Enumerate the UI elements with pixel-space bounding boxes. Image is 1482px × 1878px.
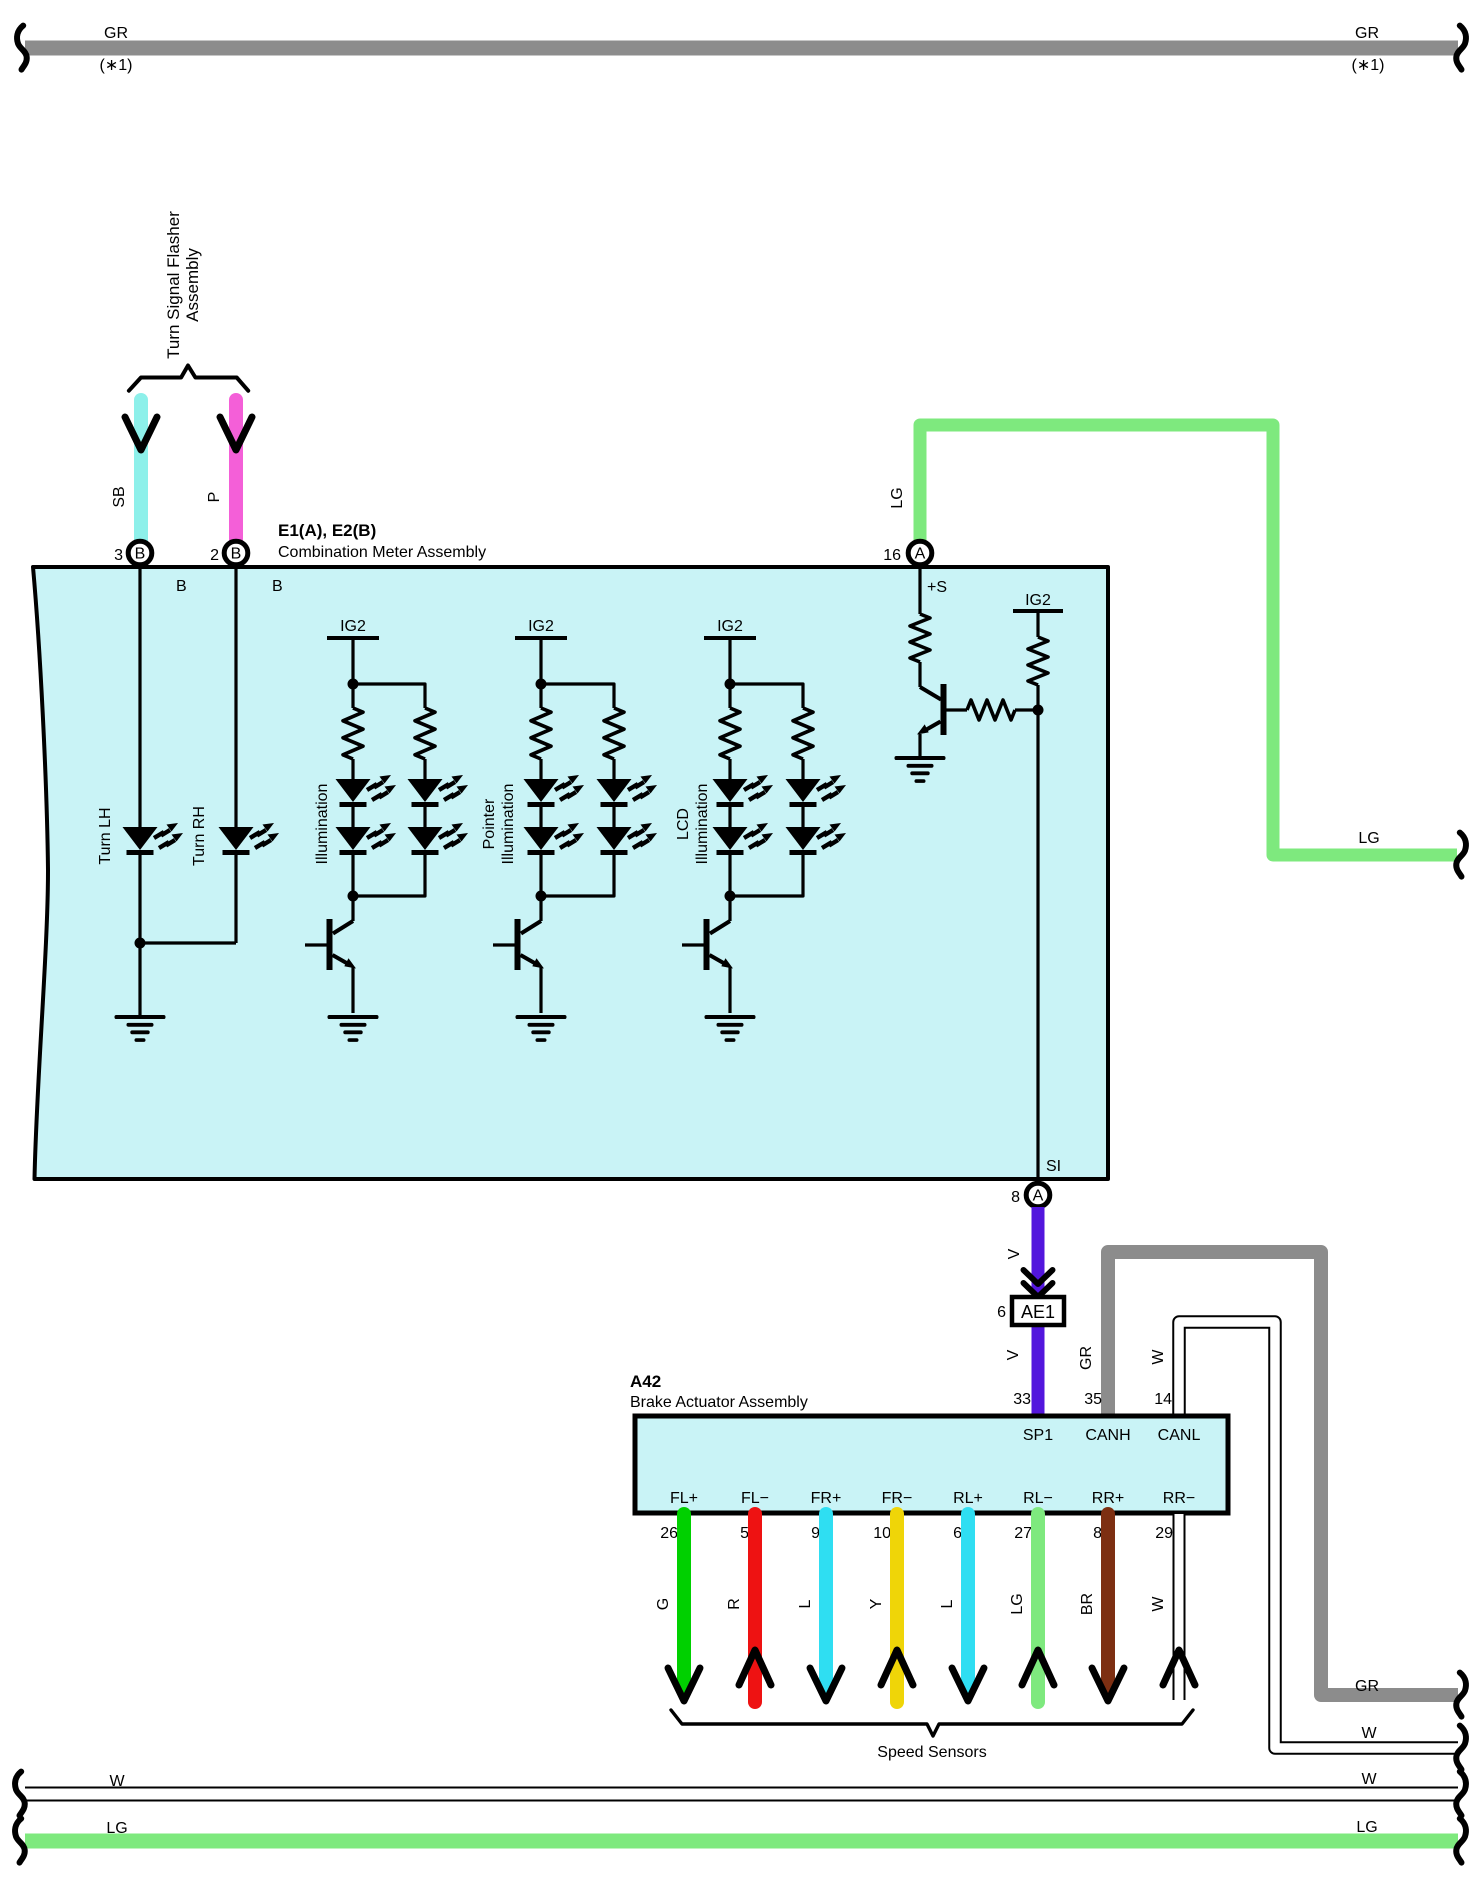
- continuation squiggle LG rail left: [15, 1819, 25, 1863]
- svg-text:27: 27: [1014, 1525, 1032, 1542]
- svg-text:W: W: [1150, 1596, 1167, 1612]
- wire L (sensor): [819, 1514, 833, 1692]
- continuation squiggle GR top-right: [1456, 26, 1466, 70]
- node branch bottom (pointer illumination): [536, 891, 547, 902]
- continuation squiggle W rail left: [15, 1772, 25, 1816]
- arrow up (LG sensor): [1022, 1650, 1054, 1685]
- wire resistor to LED1 right (illumination): [423, 759, 426, 780]
- wire LED2 to bottom node left (LCD illumination): [728, 852, 731, 896]
- svg-text:LG: LG: [1358, 830, 1379, 847]
- wire LED2 to bottom join right (pointer illumination): [541, 852, 614, 896]
- svg-text:3: 3: [114, 547, 123, 564]
- wire node to transistor (pointer illumination): [539, 896, 542, 921]
- arrow double chevron on V wire: [1024, 1270, 1053, 1284]
- svg-text:RL−: RL−: [1023, 1490, 1053, 1507]
- wire GR CANH: [1108, 1252, 1458, 1695]
- svg-text:RL+: RL+: [953, 1490, 983, 1507]
- resistor left (illumination): [343, 708, 363, 759]
- LED 1 left (illumination): [336, 775, 397, 807]
- connector A pin 8: [1026, 1183, 1050, 1207]
- wire SB (turn LH feed): [134, 400, 148, 546]
- svg-text:SB: SB: [111, 486, 128, 507]
- connector A pin 16: [908, 541, 932, 565]
- connector B pin 3: [128, 541, 152, 565]
- svg-text:LCD: LCD: [675, 808, 692, 840]
- wire P (turn RH feed): [229, 400, 243, 546]
- svg-text:A: A: [1033, 1188, 1044, 1205]
- node junction turn wires: [135, 938, 146, 949]
- svg-text:IG2: IG2: [528, 618, 554, 635]
- wire LED2 to bottom node left (pointer illumination): [539, 852, 542, 896]
- junction connector AE1: [1012, 1297, 1064, 1325]
- svg-text:G: G: [655, 1598, 672, 1610]
- svg-text:Speed Sensors: Speed Sensors: [877, 1744, 986, 1761]
- wire resistor to LED1 right (LCD illumination): [801, 759, 804, 780]
- wire node to transistor (illumination): [351, 896, 354, 921]
- svg-text:B: B: [272, 578, 283, 595]
- resistor IG2 pullup: [1028, 637, 1048, 685]
- svg-text:8: 8: [1093, 1525, 1102, 1542]
- svg-text:CANL: CANL: [1158, 1427, 1201, 1444]
- svg-text:V: V: [1005, 1349, 1022, 1360]
- svg-text:Illumination: Illumination: [500, 784, 517, 865]
- LED Turn LH: [123, 823, 184, 855]
- svg-text:B: B: [176, 578, 187, 595]
- node branch top (illumination): [348, 679, 359, 690]
- svg-text:FL+: FL+: [670, 1490, 698, 1507]
- wire Y (sensor): [890, 1514, 904, 1702]
- svg-text:LG: LG: [889, 487, 906, 508]
- svg-text:10: 10: [873, 1525, 891, 1542]
- LED 2 right (pointer illumination): [597, 823, 658, 855]
- svg-text:Assembly: Assembly: [183, 248, 202, 322]
- svg-text:35: 35: [1084, 1391, 1102, 1408]
- svg-text:FL−: FL−: [741, 1490, 769, 1507]
- svg-text:8: 8: [1011, 1189, 1020, 1206]
- svg-text:R: R: [726, 1598, 743, 1610]
- wire resistor to LED1 right (pointer illumination): [612, 759, 615, 780]
- continuation squiggle LG rail right: [1456, 1819, 1466, 1863]
- wire resistor to Q collector: [918, 662, 921, 687]
- arrow down (G sensor): [668, 1668, 700, 1701]
- svg-text:6: 6: [953, 1525, 962, 1542]
- LED 2 left (LCD illumination): [713, 823, 774, 855]
- wire W (RR- sensor, outlined): [1173, 1514, 1186, 1700]
- node branch top (LCD illumination): [725, 679, 736, 690]
- LED Turn RH: [219, 823, 280, 855]
- wire pin2 to Turn RH LED: [234, 567, 237, 828]
- wire pin3 to Turn LH LED: [138, 567, 141, 828]
- svg-text:W: W: [1361, 1725, 1377, 1742]
- resistor right (pointer illumination): [604, 708, 624, 759]
- svg-text:SP1: SP1: [1023, 1427, 1053, 1444]
- wire LED1-LED2 right (illumination): [423, 804, 426, 828]
- ground (illumination): [328, 1015, 379, 1042]
- svg-text:6: 6: [997, 1304, 1006, 1321]
- wire Turn LH LED to ground: [138, 852, 141, 1016]
- svg-text:W: W: [1361, 1771, 1377, 1788]
- arrow on SB wire: [125, 417, 157, 450]
- svg-text:CANH: CANH: [1085, 1427, 1130, 1444]
- wire LED1-LED2 right (pointer illumination): [612, 804, 615, 828]
- svg-text:2: 2: [210, 547, 219, 564]
- LED 2 right (LCD illumination): [786, 823, 847, 855]
- bracket speed sensors: [671, 1710, 1193, 1736]
- svg-text:P: P: [206, 492, 223, 503]
- transistor pointer illumination driver: [493, 919, 544, 1013]
- wire Q emitter to ground: [918, 734, 921, 756]
- continuation squiggle GR top-left: [17, 26, 27, 70]
- LED 2 right (illumination): [408, 823, 469, 855]
- ground (LCD illumination): [705, 1015, 756, 1042]
- svg-text:LG: LG: [106, 1820, 127, 1837]
- LED 1 left (pointer illumination): [524, 775, 585, 807]
- svg-text:GR: GR: [1355, 1678, 1379, 1695]
- svg-text:Illumination: Illumination: [694, 784, 711, 865]
- wire to right branch (illumination): [353, 684, 425, 708]
- resistor +S: [910, 614, 930, 662]
- wire W CANL (outlined): [1179, 1322, 1458, 1748]
- wire R (sensor): [748, 1514, 762, 1702]
- wire GR bus (top rail): [25, 41, 1458, 56]
- wire pullup to node: [1036, 685, 1039, 710]
- wire W bus (bottom rail, outlined): [25, 1787, 1458, 1802]
- wire junction to Turn RH: [140, 941, 236, 944]
- svg-text:L: L: [797, 1599, 814, 1608]
- LED 1 left (LCD illumination): [713, 775, 774, 807]
- svg-text:IG2: IG2: [1025, 592, 1051, 609]
- svg-text:SI: SI: [1046, 1158, 1061, 1175]
- svg-text:29: 29: [1155, 1525, 1173, 1542]
- arrow up (R sensor): [739, 1650, 771, 1685]
- wire to right branch (LCD illumination): [730, 684, 803, 708]
- resistor right (LCD illumination): [793, 708, 813, 759]
- svg-text:IG2: IG2: [340, 618, 366, 635]
- svg-text:Pointer: Pointer: [481, 798, 498, 849]
- LED 1 right (LCD illumination): [786, 775, 847, 807]
- svg-text:33: 33: [1013, 1391, 1031, 1408]
- wire G (sensor): [677, 1514, 691, 1692]
- wire LED2 to bottom join right (LCD illumination): [730, 852, 803, 896]
- LED 2 left (pointer illumination): [524, 823, 585, 855]
- svg-text:V: V: [1006, 1248, 1023, 1259]
- svg-text:BR: BR: [1079, 1593, 1096, 1615]
- svg-text:A: A: [915, 546, 926, 563]
- wire IG2 to branch node (pointer illumination): [539, 640, 542, 708]
- svg-text:5: 5: [740, 1525, 749, 1542]
- wire IG2 to branch node (illumination): [351, 640, 354, 708]
- wire LED1-LED2 left (illumination): [351, 804, 354, 828]
- wire IG2 to pullup resistor: [1036, 613, 1039, 637]
- svg-text:GR: GR: [104, 25, 128, 42]
- continuation squiggle LG right: [1456, 833, 1466, 877]
- svg-text:FR+: FR+: [811, 1490, 842, 1507]
- svg-text:IG2: IG2: [717, 618, 743, 635]
- svg-text:26: 26: [660, 1525, 678, 1542]
- svg-text:(∗1): (∗1): [1352, 57, 1385, 74]
- svg-text:(∗1): (∗1): [100, 57, 133, 74]
- wire LED2 to bottom node left (illumination): [351, 852, 354, 896]
- wire L (sensor): [961, 1514, 975, 1692]
- arrow down (BR sensor): [1092, 1668, 1124, 1701]
- wire resistor to LED1 left (pointer illumination): [539, 759, 542, 780]
- svg-text:Turn LH: Turn LH: [97, 807, 114, 864]
- wire BR (sensor): [1101, 1514, 1115, 1692]
- wire Turn RH LED to junction: [234, 852, 237, 943]
- resistor right (illumination): [415, 708, 435, 759]
- ground (pointer illumination): [516, 1015, 567, 1042]
- wire IG2 to branch node (LCD illumination): [728, 640, 731, 708]
- transistor LCD illumination driver: [682, 919, 733, 1013]
- continuation squiggle GR bottom right: [1456, 1673, 1466, 1717]
- wire to right branch (pointer illumination): [541, 684, 614, 708]
- svg-text:RR+: RR+: [1092, 1490, 1124, 1507]
- svg-text:W: W: [109, 1773, 125, 1790]
- arrow on P wire: [220, 417, 252, 450]
- wire LED1-LED2 left (LCD illumination): [728, 804, 731, 828]
- resistor base (horizontal): [967, 700, 1015, 720]
- arrow up (W sensor): [1163, 1650, 1195, 1685]
- resistor left (pointer illumination): [531, 708, 551, 759]
- svg-text:RR−: RR−: [1163, 1490, 1195, 1507]
- wire LG bus (bottom rail): [25, 1834, 1458, 1849]
- svg-text:FR−: FR−: [882, 1490, 913, 1507]
- wire LED1-LED2 right (LCD illumination): [801, 804, 804, 828]
- connector B pin 2: [224, 541, 248, 565]
- node branch top (pointer illumination): [536, 679, 547, 690]
- svg-text:Brake Actuator Assembly: Brake Actuator Assembly: [630, 1394, 808, 1411]
- svg-text:16: 16: [883, 547, 901, 564]
- resistor left (LCD illumination): [720, 708, 740, 759]
- svg-text:LG: LG: [1009, 1593, 1026, 1614]
- node SI: [1033, 705, 1044, 716]
- transistor Q +S buffer: [920, 687, 941, 700]
- LED 1 right (pointer illumination): [597, 775, 658, 807]
- continuation squiggle W CANL right: [1456, 1726, 1466, 1770]
- svg-text:Illumination: Illumination: [314, 784, 331, 865]
- svg-text:E1(A), E2(B): E1(A), E2(B): [278, 521, 376, 540]
- brace Turn Signal Flasher Assembly: [129, 366, 248, 391]
- arrow down (L sensor): [952, 1668, 984, 1701]
- svg-text:B: B: [231, 546, 242, 563]
- svg-text:+S: +S: [927, 579, 947, 596]
- svg-text:LG: LG: [1356, 1819, 1377, 1836]
- wire resistor to LED1 left (illumination): [351, 759, 354, 780]
- svg-text:9: 9: [811, 1525, 820, 1542]
- svg-text:GR: GR: [1355, 25, 1379, 42]
- wire node SI to pin 8: [1036, 710, 1039, 1179]
- transistor illumination driver: [305, 919, 356, 1013]
- wire LG (sensor): [1031, 1514, 1045, 1702]
- wire LED2 to bottom join right (illumination): [353, 852, 425, 896]
- svg-text:Y: Y: [868, 1598, 885, 1609]
- svg-text:A42: A42: [630, 1372, 661, 1391]
- arrow up (Y sensor): [881, 1650, 913, 1685]
- svg-text:L: L: [939, 1599, 956, 1608]
- node branch bottom (LCD illumination): [725, 891, 736, 902]
- svg-text:W: W: [1150, 1349, 1167, 1365]
- svg-text:Turn Signal Flasher: Turn Signal Flasher: [164, 211, 183, 359]
- svg-text:B: B: [135, 546, 146, 563]
- svg-text:AE1: AE1: [1021, 1302, 1055, 1322]
- ground +S transistor: [895, 756, 946, 783]
- wire pin16 +S to resistor: [918, 567, 921, 614]
- svg-text:Turn RH: Turn RH: [191, 806, 208, 866]
- LED 1 right (illumination): [408, 775, 469, 807]
- svg-text:GR: GR: [1078, 1346, 1095, 1370]
- wire LG from pin16: [920, 425, 1457, 855]
- node branch bottom (illumination): [348, 891, 359, 902]
- arrow down (L sensor): [810, 1668, 842, 1701]
- brake actuator assembly box: [635, 1416, 1228, 1513]
- wire LED1-LED2 left (pointer illumination): [539, 804, 542, 828]
- combination meter assembly box: [33, 567, 1108, 1179]
- LED 2 left (illumination): [336, 823, 397, 855]
- ground turn circuit: [115, 1015, 166, 1042]
- wire resistor to LED1 left (LCD illumination): [728, 759, 731, 780]
- svg-text:14: 14: [1154, 1391, 1172, 1408]
- wire node to transistor (LCD illumination): [728, 896, 731, 921]
- wire V (SI signal): [1032, 1207, 1045, 1416]
- continuation squiggle W rail right: [1456, 1772, 1466, 1816]
- svg-text:Combination Meter Assembly: Combination Meter Assembly: [278, 544, 486, 561]
- wire base resistor to node: [1015, 708, 1038, 711]
